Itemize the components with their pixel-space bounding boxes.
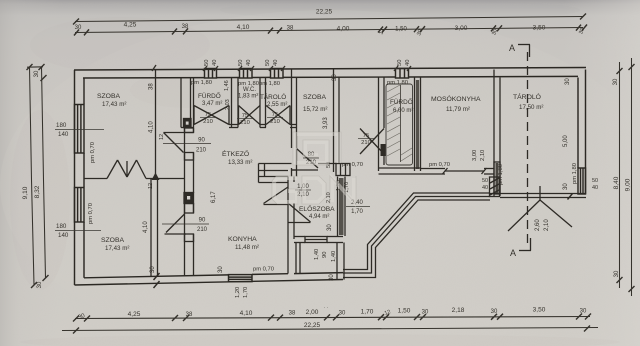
svg-text:FÜRDŐ: FÜRDŐ — [198, 91, 221, 100]
svg-text:6,17: 6,17 — [211, 191, 217, 203]
svg-text:ÉTKEZŐ: ÉTKEZŐ — [222, 149, 249, 158]
svg-text:pm 1,80: pm 1,80 — [191, 80, 212, 86]
svg-text:pm 0,70: pm 0,70 — [253, 267, 274, 273]
room label mosokonyha — [431, 94, 481, 113]
svg-text:2,10: 2,10 — [544, 219, 550, 231]
svg-text:pm 1,80: pm 1,80 — [238, 81, 259, 87]
svg-text:1,70: 1,70 — [243, 287, 249, 298]
svg-text:40: 40 — [592, 185, 598, 191]
svg-text:210: 210 — [240, 120, 250, 126]
svg-text:1,40: 1,40 — [314, 249, 320, 260]
svg-text:ˈ ˈ: ˈ ˈ — [324, 307, 329, 313]
svg-text:W.C.: W.C. — [243, 87, 256, 93]
svg-text:210: 210 — [270, 119, 280, 125]
section A marks — [518, 45, 531, 251]
tick at right wall terrace junction — [568, 194, 573, 200]
double door 145/210 between szobas — [107, 160, 146, 179]
wall Vk vertical stub — [259, 164, 292, 183]
wall tarolo/szoba15 upper — [292, 70, 297, 149]
bottom segmented dimension line — [73, 314, 591, 322]
svg-text:6,00 m²: 6,00 m² — [393, 108, 413, 114]
door 75/210 furdo2 — [360, 129, 384, 155]
svg-text:TÁROLÓ: TÁROLÓ — [260, 92, 286, 101]
window dim pair 50/40 furdo — [204, 60, 218, 66]
room label furdo2 — [390, 97, 413, 114]
wall szoba15 right — [334, 70, 340, 173]
svg-text:4,10: 4,10 — [237, 24, 250, 31]
left outer dimension line 9,10 — [27, 64, 44, 288]
wall wc/tarolo — [260, 78, 266, 128]
svg-text:30: 30 — [218, 266, 224, 273]
svg-text:SZOBA: SZOBA — [97, 93, 121, 100]
svg-text:ELŐSZOBA: ELŐSZOBA — [299, 204, 335, 213]
svg-text:30: 30 — [613, 78, 619, 85]
left inner dimension line 8,32 — [39, 64, 49, 281]
wall A szoba right upper — [155, 70, 157, 179]
svg-text:90: 90 — [198, 138, 205, 144]
window top wall (tarolo 50/40) — [271, 69, 284, 79]
door label furdo 75/210 — [200, 112, 216, 125]
svg-text:75: 75 — [363, 133, 369, 139]
window top wall (wc 50/40) — [240, 69, 253, 79]
svg-text:210: 210 — [361, 140, 371, 146]
svg-text:90: 90 — [322, 252, 328, 258]
door swing elo lower — [289, 204, 311, 223]
wall H4 elo bottom with window 140/90 — [294, 237, 343, 243]
svg-text:38: 38 — [287, 26, 294, 32]
svg-text:30: 30 — [339, 311, 346, 317]
svg-text:2,55 m²: 2,55 m² — [267, 102, 287, 108]
door label konyha 90/210 — [162, 218, 209, 234]
svg-text:30: 30 — [614, 270, 620, 277]
svg-text:30: 30 — [422, 310, 429, 316]
svg-text:MOSÓKONYHA: MOSÓKONYHA — [431, 94, 481, 103]
dim 150/170 above terrace — [336, 180, 350, 193]
mosokonyha bottom wall with opening — [421, 168, 495, 174]
furdo left wall inner — [191, 78, 194, 128]
wall A lower double — [151, 178, 158, 276]
svg-text:140: 140 — [58, 232, 69, 239]
right dimension line 9,00 — [629, 58, 635, 296]
elo right wall hatched — [338, 177, 346, 237]
svg-text:A: A — [509, 43, 515, 53]
svg-text:1,20: 1,20 — [235, 287, 241, 298]
furdo2 bottom wall — [379, 144, 421, 174]
svg-text:30: 30 — [75, 25, 82, 31]
svg-text:4,25: 4,25 — [128, 311, 141, 318]
small rooms bottom wall H1 — [181, 125, 297, 128]
svg-text:50: 50 — [238, 60, 244, 66]
wall G mosokonyha/tarolo — [494, 70, 500, 197]
window right wall (pm 1,80) — [578, 168, 586, 194]
window pm180 in wall G bottom — [494, 162, 500, 194]
elo right wall lower part — [337, 243, 344, 280]
window bottom wall konyha (120/170) — [229, 275, 253, 282]
wall B etkezo west (with chimneys) — [185, 128, 194, 276]
svg-text:75: 75 — [205, 112, 211, 118]
dim 180/140 left upper — [55, 122, 104, 138]
svg-text:210: 210 — [197, 227, 208, 233]
svg-text:4,00: 4,00 — [337, 26, 350, 33]
svg-text:3,50: 3,50 — [533, 307, 546, 314]
svg-text:17,43 m²: 17,43 m² — [105, 245, 129, 252]
left dimension labels — [22, 70, 43, 288]
dim 140/90 elo window — [314, 249, 337, 262]
svg-text:17,43 m²: 17,43 m² — [102, 101, 126, 108]
wall H2 under szoba15 — [292, 164, 337, 171]
top segmented dimension line — [74, 25, 587, 36]
door label etkezo 90/210 — [163, 138, 211, 154]
svg-text:180: 180 — [56, 223, 67, 230]
window top wall (furdo2 50/40) — [396, 69, 409, 79]
svg-text:50: 50 — [265, 60, 271, 66]
door swing X tarolo — [266, 106, 290, 125]
svg-text:11,48 m²: 11,48 m² — [235, 244, 259, 251]
svg-text:38: 38 — [289, 311, 296, 317]
svg-text:3,93: 3,93 — [323, 117, 329, 129]
svg-text:30: 30 — [37, 281, 43, 288]
svg-text:50: 50 — [482, 178, 488, 184]
window dim ticks above top wall — [152, 65, 411, 71]
svg-text:40: 40 — [482, 185, 488, 191]
svg-text:210: 210 — [203, 119, 213, 125]
svg-text:9,00: 9,00 — [625, 178, 632, 191]
svg-text:4,10: 4,10 — [149, 121, 155, 133]
room label tarolo small — [260, 92, 287, 108]
exterior left wall — [75, 70, 85, 285]
svg-text:50: 50 — [204, 60, 210, 66]
svg-text:1,40: 1,40 — [331, 251, 337, 262]
svg-text:11,79 m²: 11,79 m² — [446, 106, 470, 113]
exterior bottom wall left part — [75, 273, 344, 285]
svg-text:4,25: 4,25 — [124, 22, 137, 29]
room label wc — [238, 87, 258, 100]
svg-text:12: 12 — [159, 134, 165, 140]
door label wc 75/210 — [237, 113, 253, 126]
furdo2 left wall — [379, 78, 385, 172]
dim 300/210 mosokonyha — [472, 150, 486, 161]
svg-text:1,50: 1,50 — [395, 27, 407, 33]
svg-text:30: 30 — [327, 224, 333, 231]
room label konyha — [228, 236, 259, 251]
svg-text:1,50: 1,50 — [398, 308, 411, 315]
door 90/210 to etkezo — [164, 133, 194, 153]
svg-text:1,70: 1,70 — [361, 309, 374, 316]
svg-text:30: 30 — [491, 309, 498, 315]
svg-text:38: 38 — [149, 83, 155, 90]
terrace edge triple line — [343, 193, 586, 278]
svg-text:4,10: 4,10 — [240, 310, 253, 317]
svg-text:pm 1,80: pm 1,80 — [387, 80, 408, 86]
top dimension labels — [75, 9, 586, 37]
section line A dashed — [527, 52, 529, 246]
svg-text:17,50 m²: 17,50 m² — [519, 104, 543, 111]
svg-text:A: A — [510, 248, 516, 258]
svg-text:FÜRDŐ: FÜRDŐ — [390, 97, 413, 106]
svg-text:30: 30 — [580, 309, 587, 315]
door 80/210 szoba15 — [297, 149, 319, 169]
window dim pair 50/40 wc — [238, 60, 252, 66]
svg-text:5,00: 5,00 — [563, 135, 569, 147]
window dim pair 50/40 furdo2 — [397, 60, 411, 66]
dim 260/210 entrance — [535, 219, 550, 231]
svg-text:13,33 m²: 13,33 m² — [228, 159, 252, 166]
pm labels top small rooms — [191, 80, 408, 87]
window dim pair 50/40 tarolo — [265, 60, 279, 66]
svg-text:pm 1,80: pm 1,80 — [498, 164, 504, 185]
svg-text:2,18: 2,18 — [452, 307, 465, 314]
dim 50/40 wall G window — [482, 178, 488, 191]
svg-text:90: 90 — [199, 218, 206, 224]
svg-text:TÁROLÓ: TÁROLÓ — [513, 92, 541, 101]
svg-text:3,50: 3,50 — [533, 25, 546, 32]
room label szoba bottom — [101, 237, 129, 252]
svg-text:3,00: 3,00 — [455, 25, 468, 32]
svg-text:40: 40 — [405, 60, 411, 66]
room label szoba top left — [97, 93, 126, 108]
svg-text:KONYHA: KONYHA — [228, 236, 257, 243]
svg-text:50: 50 — [592, 178, 598, 184]
elo left wall with door 100/210 — [288, 177, 294, 274]
svg-text:3,47 m²: 3,47 m² — [202, 101, 222, 107]
wall szoba15 left lower with door 80/210 — [292, 168, 297, 177]
room label tarolo big — [513, 92, 543, 111]
svg-text:40: 40 — [273, 60, 279, 66]
svg-text:30: 30 — [150, 266, 156, 273]
wall strip east line / furdo outer left — [180, 78, 182, 128]
svg-text:3,00: 3,00 — [472, 150, 478, 161]
door label tarolo 75/210 — [267, 112, 283, 125]
svg-text:38: 38 — [186, 312, 193, 318]
svg-text:8,32: 8,32 — [34, 185, 41, 198]
bottom dimension labels — [77, 307, 587, 330]
window top wall (furdo 50/40) — [205, 69, 217, 79]
svg-text:140: 140 — [58, 131, 69, 138]
svg-text:40: 40 — [246, 60, 252, 66]
window pm070 at szoba15 bottom — [336, 164, 350, 176]
door 90/210 to konyha — [165, 214, 187, 234]
svg-text:22,25: 22,25 — [316, 9, 333, 16]
svg-text:4,94 m²: 4,94 m² — [309, 214, 329, 220]
svg-text:210: 210 — [196, 148, 207, 154]
wall between szobas with double door — [84, 178, 185, 180]
svg-text:2,60: 2,60 — [535, 219, 541, 231]
junction arrow mark — [152, 173, 160, 181]
svg-text:1,83 m²: 1,83 m² — [238, 94, 258, 100]
door label furdo2 75/210 — [358, 133, 374, 146]
door swing X wc — [239, 106, 261, 125]
svg-text:pm 0,70: pm 0,70 — [90, 142, 96, 163]
door 100/210 elo to konyha — [264, 187, 289, 205]
svg-text:30: 30 — [565, 78, 571, 85]
svg-text:2,00: 2,00 — [306, 309, 319, 316]
svg-text:pm 1,80: pm 1,80 — [572, 163, 578, 184]
door swing X furdo — [194, 106, 229, 125]
room label etkezo — [222, 149, 252, 166]
svg-text:9,10: 9,10 — [22, 186, 29, 199]
room label furdo — [198, 91, 222, 107]
dim 180/140 left lower — [55, 223, 101, 239]
svg-text:180: 180 — [56, 122, 67, 129]
svg-text:pm 0,70: pm 0,70 — [88, 203, 94, 224]
chimney lower (filled) — [184, 193, 194, 204]
furdo2 inner lines — [386, 84, 413, 165]
svg-text:15,72 m²: 15,72 m² — [303, 106, 327, 113]
room label eloszoba — [299, 204, 335, 220]
svg-text:30: 30 — [34, 70, 40, 77]
svg-text:pm 0,70: pm 0,70 — [429, 162, 450, 168]
svg-text:SZOBA: SZOBA — [101, 237, 125, 244]
dim 120/170 konyha window — [235, 287, 249, 298]
chimney upper (filled) — [184, 119, 192, 128]
room label szoba15 — [303, 94, 327, 113]
svg-text:75: 75 — [272, 112, 278, 118]
top overall dimension line 22,25 — [73, 14, 586, 25]
exterior right wall — [578, 70, 586, 195]
wall furdo/wc — [232, 78, 239, 128]
bottom overall dimension line 22,25 — [62, 326, 598, 334]
door label elo 100/210 — [295, 184, 311, 198]
svg-text:1,70: 1,70 — [351, 209, 363, 215]
tick marks bottom wall at wall A — [154, 273, 160, 288]
furdo2 right wall / mosokonyha left — [415, 78, 421, 172]
right dimension labels — [613, 78, 632, 277]
svg-text:1,46: 1,46 — [224, 80, 230, 91]
entrance roof mark — [508, 186, 572, 231]
dim 240/170 elo right — [346, 200, 370, 215]
svg-text:75: 75 — [242, 113, 248, 119]
exterior top wall — [74, 68, 586, 79]
svg-text:30: 30 — [563, 183, 569, 190]
svg-text:2,10: 2,10 — [480, 150, 486, 161]
svg-text:30: 30 — [329, 274, 335, 281]
svg-text:pm 0,70: pm 0,70 — [342, 162, 363, 168]
svg-text:SZOBA: SZOBA — [303, 94, 327, 101]
svg-text:pm 1,80: pm 1,80 — [259, 81, 280, 87]
svg-text:50: 50 — [397, 60, 403, 66]
right dimension line 8,40 — [617, 62, 623, 288]
window left wall upper (180/140) — [75, 105, 85, 154]
svg-text:38: 38 — [182, 24, 189, 30]
terrace wall block — [490, 177, 500, 197]
svg-text:2,03: 2,03 — [225, 99, 231, 110]
svg-text:40: 40 — [212, 60, 218, 66]
svg-text:30: 30 — [332, 74, 338, 81]
window left wall lower (180/140) — [75, 188, 85, 223]
svg-text:22,25: 22,25 — [304, 322, 321, 329]
door label szoba15 80/210 — [303, 152, 319, 166]
watermark — [274, 134, 354, 202]
svg-text:12: 12 — [148, 183, 154, 189]
svg-text:4,10: 4,10 — [143, 221, 149, 233]
furdo2 interior hatch — [387, 85, 412, 161]
lower room left wall — [296, 243, 300, 274]
dim 50/40 right wall window — [592, 178, 598, 191]
wall H3 konyha/elo horizontal — [259, 171, 289, 183]
svg-text:8,40: 8,40 — [613, 176, 620, 189]
